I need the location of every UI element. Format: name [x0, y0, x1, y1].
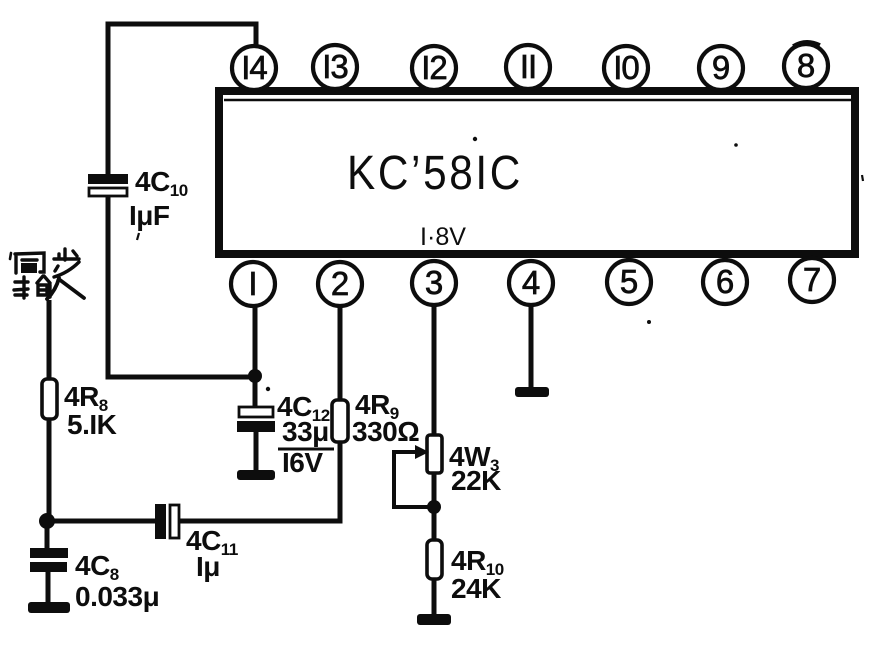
potentiometer W3 (4W3 22K)	[394, 435, 442, 507]
wire pin2 down	[338, 306, 343, 401]
label 4R9	[355, 389, 399, 423]
wire junction down to C8	[45, 521, 50, 550]
pin 11	[506, 45, 550, 89]
speck	[266, 387, 270, 391]
pin 1	[231, 262, 275, 306]
wire pin4 down	[529, 305, 534, 389]
speck	[862, 175, 863, 181]
label 1u	[196, 551, 220, 582]
pin 4	[509, 261, 553, 305]
svg-text:I0: I0	[613, 49, 639, 86]
svg-text:24K: 24K	[451, 573, 501, 604]
label 24K	[451, 573, 501, 604]
wire pot bottom through junction to R10	[432, 473, 437, 541]
svg-text:9: 9	[712, 49, 730, 86]
label 1uF	[129, 200, 170, 231]
capacitor C11 (4C11 1u)	[155, 504, 179, 539]
resistor R8 (4R8 5.1K)	[42, 379, 57, 419]
pin 5	[607, 260, 651, 304]
label KC'581C	[347, 147, 523, 200]
capacitor C12 (4C12 33u/16V)	[237, 407, 275, 432]
speck	[473, 137, 477, 141]
svg-text:2: 2	[331, 265, 349, 302]
pin 14	[232, 46, 276, 90]
label sync input (tong bu / shu ru) hand-drawn	[10, 249, 84, 299]
label 5.1K	[67, 409, 117, 440]
node junction pin1/C10	[248, 369, 262, 383]
resistor R9 (4R9 330)	[332, 400, 348, 442]
label 1.8V	[420, 223, 466, 251]
svg-text:330Ω: 330Ω	[352, 416, 419, 447]
pin 6	[703, 260, 747, 304]
svg-text:6: 6	[716, 263, 734, 300]
pin 7	[790, 258, 834, 302]
svg-text:IμF: IμF	[129, 200, 170, 231]
svg-text:I·8V: I·8V	[420, 223, 466, 251]
svg-text:II: II	[520, 48, 536, 85]
wire R9 bottom to C11 line	[179, 442, 340, 521]
label 4C10	[135, 166, 188, 200]
resistor R10 (4R10 24K)	[427, 540, 442, 579]
label 4C12	[277, 391, 330, 425]
capacitor C8 (4C8 0.033u)	[30, 548, 68, 572]
ground C8	[28, 602, 70, 613]
IC U1 KC581C body	[219, 91, 855, 254]
pin 2	[318, 262, 362, 306]
ground R10	[417, 614, 451, 625]
svg-text:22K: 22K	[451, 465, 501, 496]
smudge on pin 8 top	[793, 42, 820, 46]
label 330ohm	[352, 416, 419, 447]
svg-text:8: 8	[797, 47, 815, 84]
label 16V	[282, 447, 323, 478]
label 22K	[451, 465, 501, 496]
svg-text:I: I	[248, 265, 257, 302]
label 4R8	[64, 381, 108, 415]
wire C10 bottom down then right to pin1 junction	[108, 196, 252, 377]
node junction C8/C11	[39, 513, 55, 529]
svg-text:5.IK: 5.IK	[67, 409, 117, 440]
pin 10	[604, 46, 648, 90]
label 4C8	[75, 550, 119, 584]
label 33u	[282, 416, 329, 447]
speck	[647, 320, 651, 324]
wire pin1 down	[253, 306, 258, 410]
label 4R10	[451, 545, 504, 579]
svg-text:I3: I3	[322, 48, 348, 85]
pin 12	[412, 46, 456, 90]
pin 9	[699, 46, 743, 90]
svg-text:I4: I4	[241, 49, 267, 86]
svg-text:5: 5	[620, 263, 638, 300]
svg-text:KC’58IC: KC’58IC	[347, 147, 523, 200]
pin 13	[313, 45, 357, 89]
svg-text:0.033μ: 0.033μ	[75, 581, 159, 612]
svg-text:7: 7	[803, 261, 821, 298]
svg-text:4: 4	[522, 264, 540, 301]
node junction wiper/R10	[427, 500, 441, 514]
svg-text:I6V: I6V	[282, 447, 323, 478]
svg-text:Iμ: Iμ	[196, 551, 220, 582]
svg-text:4C8: 4C8	[75, 550, 119, 584]
svg-text:3: 3	[425, 264, 443, 301]
label 4W3	[449, 441, 499, 475]
ground C12	[237, 470, 275, 480]
svg-text:4C10: 4C10	[135, 166, 188, 200]
scan artifact line under IC top border	[224, 99, 852, 102]
svg-text:I2: I2	[421, 49, 447, 86]
svg-text:33μ: 33μ	[282, 416, 329, 447]
wire R10 to ground	[432, 579, 437, 617]
label 4C11	[186, 525, 238, 559]
wire C8 to ground	[46, 572, 51, 604]
capacitor C10 (4C10 1uF)	[88, 174, 128, 196]
speck	[734, 143, 738, 147]
ground pin4	[515, 387, 549, 397]
speck	[137, 233, 139, 240]
wire top from C10 branch to pin 14	[108, 24, 256, 177]
pin 8	[784, 44, 828, 88]
wire C12 to ground	[254, 432, 259, 471]
fraction bar	[278, 448, 334, 451]
wire pin3 down	[432, 305, 437, 436]
wire R8 down to junction	[47, 419, 49, 521]
pin 3	[412, 261, 456, 305]
label 0.033u	[75, 581, 159, 612]
wire sync input down to R8	[47, 300, 52, 380]
wire junction to C11	[47, 519, 155, 524]
